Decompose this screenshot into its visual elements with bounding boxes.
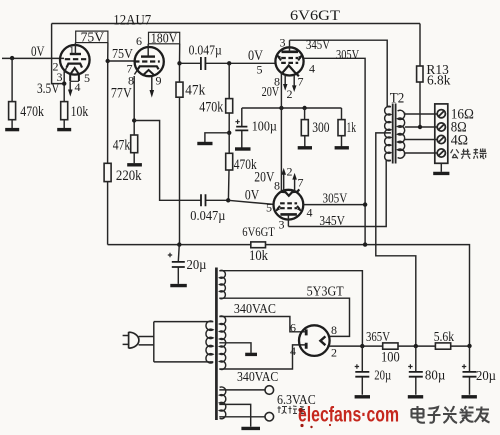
V1b plate <box>141 55 155 57</box>
wire: plate no.1 to T2 <box>290 40 388 107</box>
T1 5V rectifier winding <box>220 270 226 298</box>
svg-text:470k: 470k <box>199 100 224 116</box>
T2 primary winding <box>385 106 391 161</box>
wire: HV center tap <box>219 343 251 353</box>
watermark CJK brand (strokes) <box>412 406 490 423</box>
resistor 47k plate load <box>176 82 183 97</box>
cathode hook no.1 <box>282 65 299 76</box>
V1a heater pins 4,5 <box>70 68 79 81</box>
plate bar no.1 <box>282 50 299 53</box>
node: screen rail junction <box>363 242 367 246</box>
wire: 5V winding top to B+ node <box>219 271 362 346</box>
svg-text:5: 5 <box>266 201 272 215</box>
svg-text:6.8k: 6.8k <box>427 73 450 88</box>
ground (cap A) <box>355 395 370 398</box>
V1a grid (dashed) <box>65 58 86 60</box>
capacitor 20u preamp <box>178 245 179 284</box>
capacitor 80u filter B <box>415 346 417 395</box>
svg-text:20µ: 20µ <box>476 368 496 383</box>
ground (20u) <box>170 284 187 287</box>
terminal circle bottom <box>265 412 274 421</box>
V1a heater arrow pin 4 <box>69 81 71 90</box>
resistor 5.6k <box>435 343 450 349</box>
screen grid dashes no.2 <box>280 207 297 209</box>
wire: V1a plate node down to V1b grid and 220k <box>107 43 109 245</box>
wire: plate no.2 to T2 <box>288 160 386 226</box>
node: first filter junction <box>360 344 364 348</box>
svg-text:6: 6 <box>136 34 142 48</box>
svg-text:100: 100 <box>381 349 400 365</box>
svg-text:1k: 1k <box>347 120 357 136</box>
wire: 5Y3 pin 2 to supply rail <box>327 345 469 347</box>
wire: preamp B+ rail <box>108 245 470 346</box>
resistor 10k cathode <box>61 102 68 120</box>
resistor 1k <box>341 108 343 147</box>
svg-text:180V: 180V <box>151 30 178 45</box>
svg-text:20µ: 20µ <box>374 368 391 383</box>
svg-text:305V: 305V <box>336 47 359 62</box>
resistor 470k lower grid leak <box>227 133 230 201</box>
capacitor 20u filter A <box>361 346 363 395</box>
wire: 5V winding bottom to 5Y3 pin 8 <box>219 298 349 336</box>
wire: to 6V6 no.1 grid <box>229 62 275 64</box>
svg-text:220k: 220k <box>116 168 142 184</box>
wire: 5Y3 pin 8 lead <box>326 334 328 336</box>
wire + ground at midpoint <box>205 133 229 142</box>
svg-text:4: 4 <box>309 62 315 76</box>
V1b cathode bracket <box>138 66 159 69</box>
V1a plate <box>70 53 81 55</box>
node: feedback tap junction <box>418 125 422 129</box>
transformer T1 core <box>215 268 218 421</box>
terminal screw 16 ohm <box>437 110 445 118</box>
svg-text:1: 1 <box>69 45 75 57</box>
svg-text:305V: 305V <box>323 191 348 206</box>
svg-text:300: 300 <box>312 120 329 136</box>
V1b heater <box>142 70 154 76</box>
svg-text:7: 7 <box>298 75 304 89</box>
T2 center tap to B+ <box>376 133 416 346</box>
tube 5Y3GT <box>299 325 330 356</box>
node: V1b grid junction <box>106 59 110 63</box>
resistor R13 6.8k feedback <box>419 24 421 128</box>
wire: input line <box>2 57 64 59</box>
svg-text:20µ: 20µ <box>187 257 207 272</box>
node: screen junction <box>363 202 367 206</box>
svg-text:100µ: 100µ <box>252 119 277 134</box>
wire: V1a cathode <box>63 71 65 128</box>
svg-text:3: 3 <box>57 70 63 84</box>
V1a cathode bracket <box>67 64 82 68</box>
ground (input 470k) <box>5 128 19 131</box>
svg-text:4Ω: 4Ω <box>451 132 468 148</box>
svg-text:47k: 47k <box>113 137 131 153</box>
mains plug <box>123 336 129 345</box>
control grid dashes no.1 <box>281 62 298 64</box>
ground (cap B) <box>408 395 423 398</box>
svg-text:75V: 75V <box>81 30 105 45</box>
ground (6.3V center tap) <box>241 427 260 430</box>
svg-text:3: 3 <box>280 36 286 50</box>
label common terminal (CJK strokes) <box>451 148 487 158</box>
T1 primary winding <box>206 321 213 363</box>
svg-text:5Y3GT: 5Y3GT <box>307 285 344 300</box>
node: 300 ohm junction <box>302 106 306 110</box>
node: cathode/feedback junction <box>62 81 66 85</box>
wire: V1b cathode down <box>133 76 135 163</box>
svg-text:2: 2 <box>287 165 293 179</box>
svg-text:12AU7: 12AU7 <box>113 12 151 29</box>
svg-text:9: 9 <box>156 73 162 87</box>
svg-text:340VAC: 340VAC <box>237 369 278 384</box>
screen grid dashes no.1 <box>281 57 298 59</box>
terminal screw 4 ohm <box>437 135 445 143</box>
capacitor 0.047u top coupling <box>180 62 230 64</box>
svg-text:7: 7 <box>298 176 304 190</box>
node: 47k/20u junction on rail <box>177 242 181 246</box>
svg-text:8: 8 <box>331 323 337 337</box>
resistor 300 cathode bias <box>304 108 306 147</box>
terminal circle top <box>265 386 274 395</box>
resistor 470k upper grid leak <box>228 63 230 133</box>
svg-text:6: 6 <box>290 321 296 335</box>
T1 HV winding <box>220 316 226 369</box>
resistor 100 <box>383 343 398 349</box>
terminal screw 8 ohm <box>437 123 445 131</box>
svg-text:3: 3 <box>279 218 285 232</box>
ground (HV center tap) <box>245 353 257 356</box>
svg-text:0V: 0V <box>245 188 260 204</box>
ground (10k) <box>57 128 71 131</box>
tube V1a 12AU7 triode <box>60 45 90 75</box>
svg-text:0.047µ: 0.047µ <box>190 208 225 223</box>
node: cathode output junction <box>132 118 136 122</box>
watermark drips <box>300 424 303 427</box>
node: grid1 junction <box>227 61 231 65</box>
resistor 47k cathode load <box>131 135 138 153</box>
resistor 220k <box>104 163 111 181</box>
svg-text:20V: 20V <box>254 170 274 186</box>
svg-text:4: 4 <box>290 344 296 358</box>
T2 core <box>393 104 396 164</box>
svg-text:340VAC: 340VAC <box>234 301 276 316</box>
svg-text:elecfans·com: elecfans·com <box>298 403 399 427</box>
capacitor 0.047u bottom coupling <box>201 194 206 206</box>
5Y3 filament chevron <box>320 336 325 345</box>
svg-text:10k: 10k <box>249 248 269 264</box>
heater arrows no.1 pins 2,7 <box>285 75 294 86</box>
T1 6.3V winding <box>220 387 226 419</box>
beam plates no.1 <box>278 56 302 61</box>
svg-text:345V: 345V <box>319 213 345 228</box>
wire: screen no.2 <box>303 204 365 206</box>
75V box label V1a plate <box>76 31 108 42</box>
svg-text:5.6k: 5.6k <box>434 329 454 344</box>
T2 secondary winding <box>398 110 405 158</box>
svg-text:5: 5 <box>257 63 263 77</box>
180V box label V1b plate <box>149 32 180 44</box>
wire: splitter cathode output <box>134 121 228 201</box>
node: input junction <box>10 56 14 60</box>
node: plate output junction <box>177 61 181 65</box>
svg-text:47k: 47k <box>185 82 206 98</box>
wire: common cathode line <box>280 73 282 192</box>
svg-text:6V6GT: 6V6GT <box>290 8 340 24</box>
wire: to 6V6 no.2 grid <box>228 200 273 204</box>
tube 6V6GT no.2 <box>274 190 304 220</box>
resistor 470k input <box>11 58 13 128</box>
beam plates no.2 <box>277 206 301 211</box>
ground (100u) <box>235 147 251 150</box>
terminal strip <box>435 104 448 163</box>
5Y3 plate bars <box>305 329 308 348</box>
label to-filament (CJK strokes) <box>278 406 306 414</box>
ground (terminal strip) <box>440 163 442 172</box>
node: 80u junction <box>414 344 418 348</box>
node: grid2 junction <box>226 198 230 202</box>
V1b grid (dashed) <box>134 60 160 62</box>
wire: 6.3V top lead to terminal <box>219 389 265 391</box>
wire: V1b plate node <box>179 44 181 245</box>
node: cathode line junction <box>279 106 283 110</box>
control grid dashes no.2 <box>280 202 297 204</box>
tube 6V6GT no.1 <box>275 47 303 75</box>
svg-text:10k: 10k <box>71 104 89 120</box>
svg-text:6V6GT: 6V6GT <box>242 225 275 239</box>
svg-text:20V: 20V <box>262 84 280 99</box>
svg-text:345V: 345V <box>306 37 330 52</box>
resistor 10k screen dropper <box>251 242 266 248</box>
wire: cathode rail 6V6 <box>242 107 342 109</box>
ground (cap C) <box>462 395 477 398</box>
wire: 6.3V center tap <box>219 404 250 426</box>
wire: screen no.1 to screen rail <box>303 58 365 244</box>
V1b heater arrow pin 9 <box>151 77 153 92</box>
svg-text:5: 5 <box>84 71 90 85</box>
tube V1b 12AU7 triode <box>135 47 164 76</box>
ground (47k cathode) <box>127 163 142 166</box>
svg-text:4: 4 <box>75 80 81 94</box>
wire: HV top to 5Y3 pin 6 <box>219 317 305 332</box>
svg-text:2: 2 <box>331 346 337 360</box>
svg-text:365V: 365V <box>366 329 390 344</box>
capacitor 20u filter C <box>469 346 471 395</box>
node: grid leak midpoint <box>227 131 231 135</box>
svg-text:8: 8 <box>274 179 280 193</box>
T2 primary top lead from plate no.1 (drawn above) <box>386 107 391 161</box>
node: third filter junction <box>467 344 471 348</box>
heater arrows no.2 pins 2,7 <box>284 174 295 191</box>
svg-text:80µ: 80µ <box>425 368 446 383</box>
terminal screw common <box>437 149 445 157</box>
wire: grid to V1b <box>108 60 135 62</box>
wire: top feedback line <box>52 23 420 25</box>
svg-text:2: 2 <box>287 87 293 101</box>
ground (1k) <box>335 146 349 149</box>
svg-text:470k: 470k <box>20 104 44 120</box>
wires plug to primary loop <box>139 337 154 345</box>
cathode hook no.2 <box>280 189 299 195</box>
wire: feedback drop to V1a cathode <box>52 24 65 84</box>
ground (300) <box>298 146 312 149</box>
svg-text:4: 4 <box>307 206 313 220</box>
T2 secondary tap wires <box>405 113 437 156</box>
primary loop wires <box>154 322 210 362</box>
svg-text:0.047µ: 0.047µ <box>189 42 222 57</box>
wire: HV bottom to 5Y3 pin 4 <box>219 345 305 369</box>
svg-text:0V: 0V <box>31 44 45 60</box>
plate bar no.2 <box>280 213 297 216</box>
svg-text:77V: 77V <box>111 85 132 101</box>
capacitor 100u cathode bypass <box>241 108 243 148</box>
wire: 6.3V bottom lead to terminal <box>219 416 265 418</box>
svg-text:75V: 75V <box>112 46 133 61</box>
